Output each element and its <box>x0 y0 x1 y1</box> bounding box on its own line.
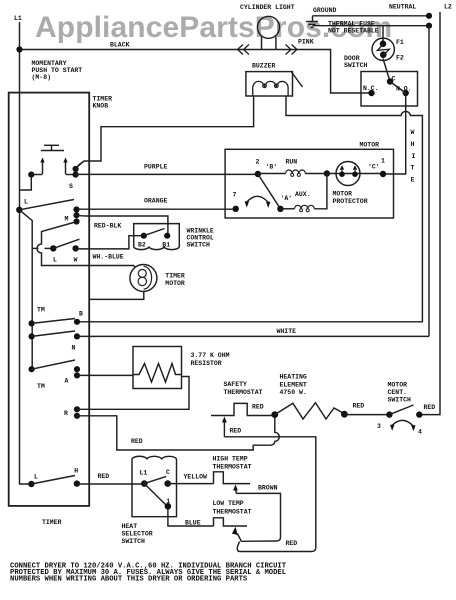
svg-text:W: W <box>74 257 78 264</box>
contact L bottom <box>28 481 34 487</box>
wire neutral to fuse branch <box>313 25 430 27</box>
switch arm L-M <box>19 200 74 210</box>
push button arrows <box>40 158 67 175</box>
svg-text:L: L <box>24 199 28 206</box>
svg-text:B: B <box>79 311 83 318</box>
motor terminal 2 <box>255 171 261 177</box>
wire brown <box>236 493 280 541</box>
svg-text:A: A <box>65 378 69 385</box>
svg-text:LOW TEMP: LOW TEMP <box>213 500 244 507</box>
wire timer motor return <box>89 292 144 300</box>
svg-text:PROTECTOR: PROTECTOR <box>333 198 368 205</box>
svg-text:PINK: PINK <box>298 39 314 46</box>
svg-text:1: 1 <box>381 158 385 165</box>
contact TM-N <box>29 333 35 339</box>
svg-text:THERMOSTAT: THERMOSTAT <box>213 508 252 515</box>
label TIMER MOTOR <box>165 273 185 287</box>
lamp cylinder light <box>258 16 280 49</box>
wire blue <box>168 506 214 526</box>
svg-text:BUZZER: BUZZER <box>252 63 276 70</box>
wire heater to cent switch <box>344 414 389 416</box>
svg-text:SWITCH: SWITCH <box>187 242 211 249</box>
wire ORANGE <box>77 208 236 210</box>
contact B1 <box>164 233 170 239</box>
label MOTOR PROTECTOR <box>333 191 368 206</box>
motor box <box>225 149 393 218</box>
wire PURPLE <box>76 173 258 175</box>
high temp thermostat <box>214 472 251 484</box>
svg-text:GROUND: GROUND <box>313 7 337 14</box>
wire N to neutral riser <box>77 335 429 337</box>
timer box <box>9 93 90 506</box>
svg-text:TM: TM <box>37 383 45 390</box>
svg-text:RESISTOR: RESISTOR <box>191 360 222 367</box>
motor protector <box>327 162 383 186</box>
svg-text:C: C <box>166 469 170 476</box>
svg-text:R: R <box>64 410 68 417</box>
motor cent contact 3 <box>386 411 392 417</box>
wire buzzer left lead to S <box>77 96 254 168</box>
svg-text:CONTROL: CONTROL <box>187 235 214 242</box>
svg-text:RED-BLK: RED-BLK <box>94 223 121 230</box>
wire push left to L1 <box>20 175 32 190</box>
svg-text:ORANGE: ORANGE <box>144 198 168 205</box>
wire resistor out to R <box>77 377 189 410</box>
cent switch arrow <box>390 420 416 431</box>
svg-text:1: 1 <box>166 498 170 505</box>
junction heater left <box>271 411 278 418</box>
svg-text:HEAT: HEAT <box>122 523 138 530</box>
buzzer <box>246 72 303 96</box>
svg-text:TIMER: TIMER <box>93 96 113 103</box>
svg-text:B2: B2 <box>138 241 146 248</box>
svg-text:MOTOR: MOTOR <box>388 382 408 389</box>
svg-text:SAFETY: SAFETY <box>224 381 248 388</box>
contact TM-B <box>29 320 35 326</box>
svg-text:RUN: RUN <box>286 159 298 166</box>
label HIGH TEMP THERMOSTAT <box>213 456 252 471</box>
svg-text:3.77 K OHM: 3.77 K OHM <box>191 352 230 359</box>
svg-text:3: 3 <box>377 423 381 430</box>
aux winding <box>280 174 327 212</box>
svg-text:'A': 'A' <box>281 195 293 202</box>
wire fuse drop <box>382 26 384 44</box>
connector chevrons right <box>286 45 298 55</box>
wire H to heat selector <box>76 483 144 485</box>
low temp arrow terminal <box>232 527 242 542</box>
svg-text:7: 7 <box>233 192 237 199</box>
wire BLACK <box>20 50 372 94</box>
wire push left stub <box>31 174 42 176</box>
svg-text:SWITCH: SWITCH <box>344 62 368 69</box>
svg-text:BLACK: BLACK <box>110 42 130 49</box>
svg-text:W: W <box>411 129 415 136</box>
svg-text:HEATING: HEATING <box>280 374 307 381</box>
label THERMAL FUSE NOT RESETABLE <box>328 21 379 35</box>
svg-text:AUX.: AUX. <box>295 191 311 198</box>
svg-text:TIMER: TIMER <box>42 519 62 526</box>
svg-text:N.O.: N.O. <box>396 86 412 93</box>
wire red safety to low temp <box>224 437 315 552</box>
wire neutral riser <box>428 26 430 337</box>
timer motor <box>130 265 157 292</box>
contact A <box>74 366 80 378</box>
junction fuse branch right <box>426 23 432 29</box>
switch arm TM-A <box>32 360 75 369</box>
wire NEUTRAL <box>313 15 430 17</box>
junction L1-black <box>16 46 22 52</box>
wire A to resistor <box>77 374 133 376</box>
wire yellow <box>168 483 214 485</box>
resistor zigzag <box>133 364 182 383</box>
label TIMER KNOB <box>93 96 113 110</box>
svg-text:SELECTOR: SELECTOR <box>122 531 153 538</box>
safety arrow terminal <box>222 417 227 437</box>
second switch W contact <box>72 245 78 251</box>
svg-text:ELEMENT: ELEMENT <box>280 381 307 388</box>
heating element <box>275 403 345 419</box>
svg-text:RED: RED <box>131 438 143 445</box>
svg-text:THERMAL FUSE: THERMAL FUSE <box>328 21 375 28</box>
selector contact 1 <box>165 503 172 510</box>
junction run-aux <box>324 170 330 176</box>
wire push right stub <box>66 174 76 176</box>
push button actuator <box>41 145 64 150</box>
svg-text:2: 2 <box>256 159 260 166</box>
node L1 <box>14 15 22 22</box>
svg-text:L: L <box>34 474 38 481</box>
svg-text:S: S <box>69 183 73 190</box>
svg-text:SWITCH: SWITCH <box>388 397 412 404</box>
svg-text:'C': 'C' <box>368 164 380 171</box>
contact S <box>73 166 79 178</box>
motor terminal 7 <box>233 206 239 212</box>
svg-text:L2: L2 <box>444 4 452 11</box>
footer text <box>10 563 287 584</box>
svg-text:CENT.: CENT. <box>388 389 408 396</box>
wire R lower red <box>77 415 279 450</box>
motor contact A <box>277 206 283 212</box>
svg-text:L1: L1 <box>14 15 22 22</box>
svg-text:RED: RED <box>353 403 365 410</box>
svg-text:TM: TM <box>37 307 45 314</box>
svg-text:RED: RED <box>424 404 436 411</box>
contact B <box>74 319 80 325</box>
wrinkle control box <box>134 224 180 250</box>
push button left contact <box>28 172 34 178</box>
svg-text:YELLOW: YELLOW <box>184 474 208 481</box>
svg-text:C: C <box>392 76 396 83</box>
svg-text:L: L <box>53 257 57 264</box>
centrifugal arm 2-A <box>258 174 281 209</box>
label MOTOR CENT. SWITCH <box>388 382 412 404</box>
wire buzzer right lead white <box>77 96 422 322</box>
svg-text:PUSH TO START: PUSH TO START <box>32 67 83 74</box>
motor terminal 1 <box>380 171 386 177</box>
ground symbol <box>306 16 318 27</box>
svg-text:M: M <box>65 216 69 223</box>
svg-text:WH.-BLUE: WH.-BLUE <box>93 254 124 261</box>
label HEATING ELEMENT 4750 W. <box>280 374 307 397</box>
svg-text:THERMOSTAT: THERMOSTAT <box>213 463 252 470</box>
label WRINKLE CONTROL SWITCH <box>187 228 214 249</box>
switch arm TM-B <box>32 319 75 324</box>
selector arm upper <box>144 476 166 483</box>
junction heater right <box>341 411 348 418</box>
svg-text:(M-8): (M-8) <box>32 74 52 81</box>
svg-text:PURPLE: PURPLE <box>144 164 168 171</box>
selector arm lower <box>144 484 165 505</box>
svg-text:B1: B1 <box>162 241 170 248</box>
svg-text:CYLINDER LIGHT: CYLINDER LIGHT <box>240 4 295 11</box>
wire M to timer motor <box>37 222 136 268</box>
door switch box <box>361 72 418 107</box>
run winding <box>258 170 327 176</box>
second switch arm <box>53 239 79 248</box>
svg-text:F1: F1 <box>396 39 404 46</box>
wire F2 to door switch C <box>383 59 390 82</box>
thermal fuse F1 F2 <box>372 38 394 60</box>
contact TM-A <box>29 366 35 372</box>
svg-text:BLUE: BLUE <box>185 519 201 526</box>
watermark <box>35 11 392 45</box>
connector chevrons left <box>238 45 250 55</box>
svg-text:E: E <box>411 177 415 184</box>
svg-text:RED: RED <box>286 540 298 547</box>
second switch L contact <box>50 245 56 251</box>
svg-text:MOTOR: MOTOR <box>165 280 185 287</box>
svg-text:WRINKLE: WRINKLE <box>187 228 214 235</box>
cent switch arm <box>389 405 413 415</box>
centrifugal arrow motor <box>245 196 271 208</box>
svg-text:NUMBERS WHEN WRITING ABOUT THI: NUMBERS WHEN WRITING ABOUT THIS DRYER OR… <box>10 576 248 584</box>
low temp thermostat <box>214 518 248 526</box>
svg-text:4: 4 <box>418 429 422 436</box>
resistor box <box>133 347 182 389</box>
selector contact C <box>164 480 171 487</box>
svg-text:I: I <box>412 153 416 160</box>
svg-text:KNOB: KNOB <box>93 103 109 110</box>
svg-text:H: H <box>411 141 415 148</box>
contact H bottom <box>74 480 80 486</box>
svg-text:RED: RED <box>230 428 242 435</box>
svg-text:SWITCH: SWITCH <box>122 538 146 545</box>
contact R <box>74 406 80 419</box>
switch arm TM-N <box>32 331 75 336</box>
svg-text:RED: RED <box>252 404 264 411</box>
wire L branch to second switch <box>32 247 38 249</box>
selector contact L1 <box>141 480 148 487</box>
label WHITE vertical <box>411 129 416 184</box>
svg-text:RED: RED <box>98 473 110 480</box>
svg-text:HIGH TEMP: HIGH TEMP <box>213 456 248 463</box>
wire L2 <box>419 12 440 415</box>
svg-text:MOTOR: MOTOR <box>333 191 353 198</box>
label SAFETY THERMOSTAT <box>224 381 263 396</box>
svg-text:WHITE: WHITE <box>277 328 297 335</box>
svg-text:F2: F2 <box>396 55 404 62</box>
svg-text:H: H <box>74 468 78 475</box>
contact N <box>74 333 80 339</box>
door switch contacts <box>368 78 409 96</box>
svg-text:N: N <box>72 345 76 352</box>
safety thermostat <box>211 403 275 415</box>
svg-text:N.C.: N.C. <box>363 85 379 92</box>
junction neutral right <box>426 13 432 19</box>
svg-text:MOTOR: MOTOR <box>360 142 380 149</box>
label LOW TEMP THERMOSTAT <box>213 500 252 515</box>
high temp arrow terminal <box>233 485 238 494</box>
wire hop over branch <box>45 247 54 249</box>
contact L timer <box>16 207 22 213</box>
label MOMENTARY PUSH TO START (M-8) <box>32 60 83 81</box>
label 3.77 K OHM RESISTOR <box>191 352 230 367</box>
svg-text:4750 W.: 4750 W. <box>280 389 307 396</box>
wire L jog down <box>19 210 32 369</box>
switch arm L-H <box>31 476 75 485</box>
motor cent contact 4 <box>416 411 422 417</box>
heat selector box <box>132 456 177 516</box>
svg-text:'B': 'B' <box>266 164 278 171</box>
svg-text:NEUTRAL: NEUTRAL <box>389 4 416 11</box>
wire S to buzzer curve <box>76 162 84 170</box>
svg-text:NOT RESETABLE: NOT RESETABLE <box>328 28 379 35</box>
svg-text:BROWN: BROWN <box>258 485 278 492</box>
svg-text:L1: L1 <box>140 470 148 477</box>
svg-text:TIMER: TIMER <box>165 273 185 280</box>
wire door NO to motor 1 <box>383 93 406 174</box>
svg-text:THERMOSTAT: THERMOSTAT <box>224 389 263 396</box>
wire WH.-BLUE <box>76 236 144 249</box>
label DOOR SWITCH <box>344 55 368 69</box>
svg-text:T: T <box>411 165 415 172</box>
contact B2 <box>141 233 147 239</box>
wire L1 vertical <box>20 22 32 484</box>
wrinkle switch arm <box>144 229 165 236</box>
label HEAT SELECTOR SWITCH <box>122 523 153 545</box>
contact M <box>73 206 79 224</box>
wire RED-BLK <box>77 215 168 236</box>
